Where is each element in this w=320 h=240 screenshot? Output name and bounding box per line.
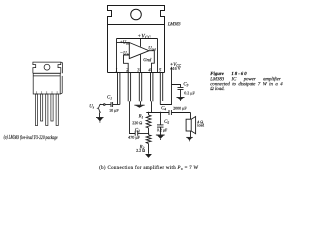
svg-text:0.2 μF: 0.2 μF xyxy=(184,90,195,95)
svg-text:5: 5 xyxy=(159,67,162,72)
svg-text:220 Ω: 220 Ω xyxy=(132,120,142,125)
svg-text:Ω load.: Ω load. xyxy=(210,87,224,92)
svg-text:2.2 Ω: 2.2 Ω xyxy=(136,148,145,153)
svg-text:Gnd: Gnd xyxy=(143,58,152,63)
svg-text:R1: R1 xyxy=(138,114,144,119)
svg-text:(b) Connection for amplifier w: (b) Connection for amplifier with Po = 7… xyxy=(99,166,198,171)
svg-text:1: 1 xyxy=(115,67,117,72)
svg-text:C3: C3 xyxy=(183,82,188,87)
svg-text:2: 2 xyxy=(126,67,129,72)
svg-text:Uout: Uout xyxy=(148,46,157,51)
svg-text:C4: C4 xyxy=(161,106,166,111)
svg-text:C2: C2 xyxy=(135,128,140,133)
svg-text:C1: C1 xyxy=(107,95,112,100)
svg-text:load: load xyxy=(197,122,204,127)
svg-text:3: 3 xyxy=(137,67,140,72)
svg-text:−Uin: −Uin xyxy=(120,51,130,56)
svg-text:LM383: LM383 xyxy=(167,21,181,26)
svg-text:Us: Us xyxy=(89,104,94,109)
svg-text:470 μF: 470 μF xyxy=(128,135,140,140)
svg-text:0.2 μF: 0.2 μF xyxy=(157,127,168,132)
svg-text:+VCC: +VCC xyxy=(137,33,150,39)
svg-text:10 μF: 10 μF xyxy=(109,108,119,113)
svg-text:+Uin: +Uin xyxy=(120,40,130,45)
svg-text:2000 μF: 2000 μF xyxy=(173,106,187,111)
svg-text:(a) LM383 five-lead TO-220 pac: (a) LM383 five-lead TO-220 package xyxy=(4,134,58,141)
svg-text:C5: C5 xyxy=(164,120,169,125)
svg-text:16 V: 16 V xyxy=(173,66,181,71)
svg-text:4: 4 xyxy=(148,67,151,72)
